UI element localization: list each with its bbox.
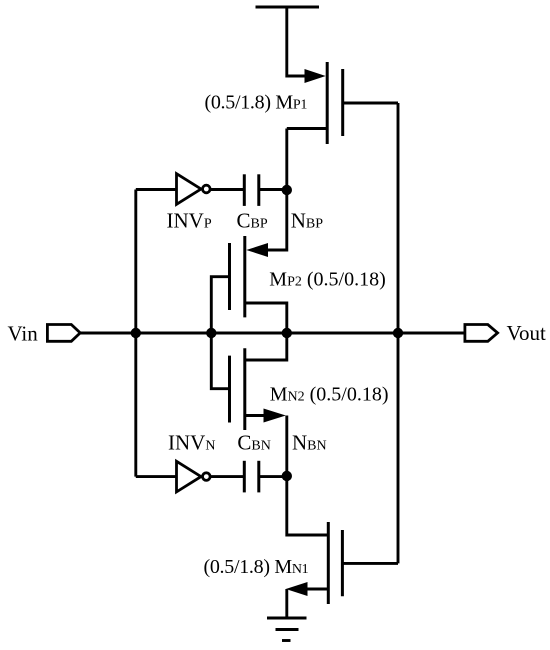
svg-text:MP2 (0.5/0.18): MP2 (0.5/0.18) — [269, 269, 385, 291]
svg-text:Vin: Vin — [8, 322, 39, 346]
svg-text:Vout: Vout — [507, 321, 546, 345]
svg-text:(0.5/1.8) MP1: (0.5/1.8) MP1 — [205, 92, 308, 114]
